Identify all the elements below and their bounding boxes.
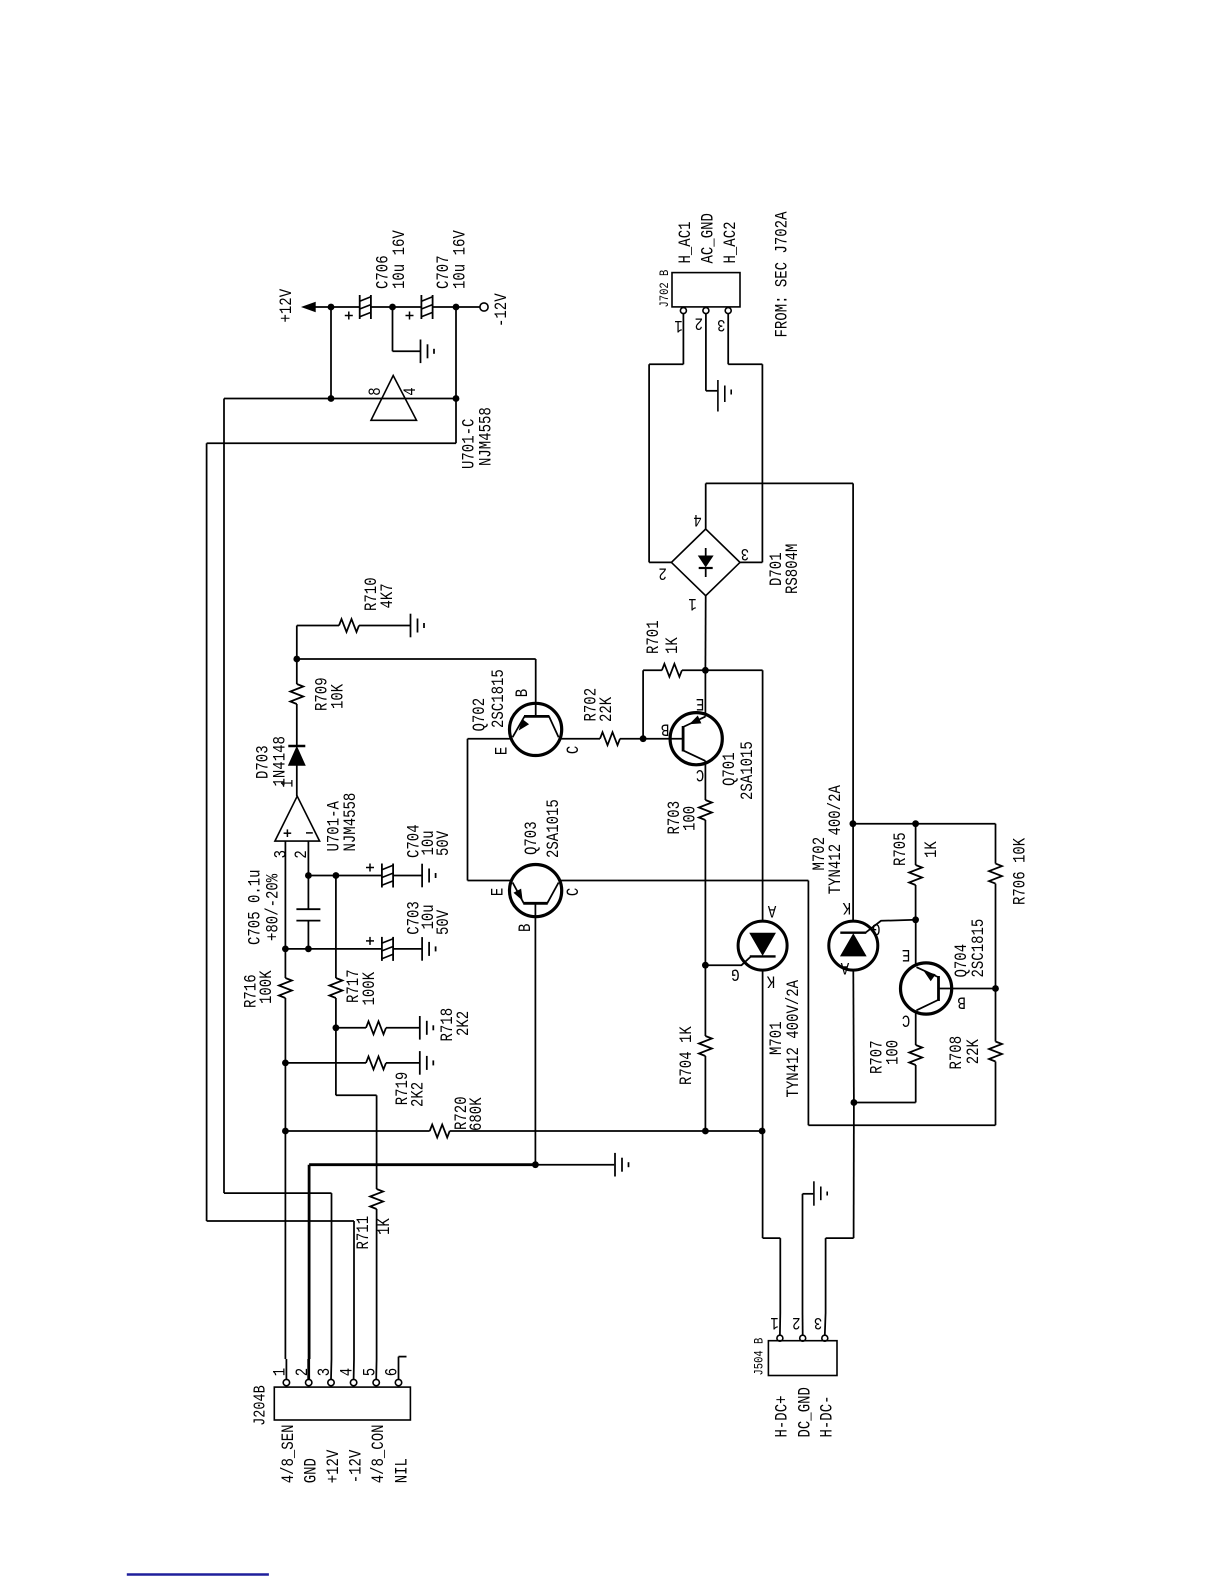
- node R717/R718: [333, 1024, 340, 1031]
- pin 3 circle: [725, 308, 731, 314]
- svg-text:4/8_SEN: 4/8_SEN: [279, 1425, 299, 1484]
- SCR M702: [852, 824, 854, 921]
- svg-text:+12V: +12V: [324, 1449, 344, 1483]
- resistor R703: [699, 800, 712, 820]
- svg-text:E: E: [902, 944, 910, 964]
- wire pin2 (-) input: [307, 841, 309, 909]
- footer line: [127, 1573, 269, 1575]
- svg-text:A: A: [840, 958, 849, 978]
- svg-text:1: 1: [674, 315, 682, 335]
- node pin2/C704/R717: [305, 872, 312, 879]
- wire R717 bottom jog to R711: [335, 1028, 337, 1096]
- pin 4 circle: [350, 1379, 356, 1385]
- node R705 top: [912, 820, 919, 827]
- wire J702 pin1: [682, 314, 684, 365]
- wire +12V to op-amp pin8 rail: [330, 307, 332, 399]
- wire +12V to J204B pin3: [224, 1192, 332, 1194]
- GND thick wire: [308, 1165, 311, 1359]
- resistor R705: [915, 824, 917, 865]
- node R716/R720 bus: [282, 1128, 289, 1135]
- wire Q701 emitter up: [704, 670, 706, 716]
- wire to C704: [308, 875, 382, 877]
- svg-text:+80/-20%: +80/-20%: [263, 873, 283, 941]
- resistor R717: [335, 876, 337, 979]
- wire bridge pin1 down: [704, 596, 706, 671]
- svg-text:+12V: +12V: [277, 288, 297, 322]
- transistor Q702: [509, 703, 561, 755]
- ground (C703): [421, 937, 423, 961]
- pin stub 4: [353, 1359, 355, 1379]
- M701 cathode wire: [762, 970, 764, 1131]
- node bus/R704: [702, 1128, 709, 1135]
- svg-text:C: C: [564, 888, 584, 896]
- wire -12V long vertical: [206, 443, 208, 1221]
- pin stub 1: [779, 1313, 781, 1335]
- wire Q702 collector to R702: [559, 738, 600, 740]
- node R706/Q704 base: [992, 985, 999, 992]
- wire -12V vertical: [455, 307, 457, 443]
- svg-text:-12V: -12V: [492, 293, 512, 327]
- wire to R708 bottom: [808, 1124, 995, 1126]
- svg-text:E: E: [696, 693, 704, 713]
- resistor R718: [336, 1027, 366, 1029]
- node M702 A / R707: [851, 1099, 858, 1106]
- svg-text:2SC1815: 2SC1815: [489, 669, 509, 728]
- wire pin1 sense line: [284, 1063, 286, 1131]
- svg-text:4K7: 4K7: [378, 583, 398, 608]
- wire C703 row: [285, 948, 382, 950]
- wire Q703 collector: [559, 880, 809, 882]
- node C705 bottom: [305, 946, 312, 953]
- wire M701 K to J504 pin1: [762, 1131, 764, 1238]
- power arrow +12V: [303, 303, 316, 312]
- svg-text:B: B: [516, 924, 536, 932]
- svg-text:R704 1K: R704 1K: [677, 1026, 697, 1085]
- svg-text:2SC1815: 2SC1815: [969, 919, 989, 978]
- wire pin3 (+) input: [284, 841, 286, 949]
- svg-text:100K: 100K: [360, 971, 380, 1005]
- M702 gate lead: [866, 920, 916, 933]
- svg-text:G: G: [731, 964, 739, 984]
- resistor R702: [600, 732, 620, 745]
- wire Q703 base down to GND: [534, 903, 536, 1164]
- capacitor C706: [359, 295, 361, 319]
- svg-text:RS804M: RS804M: [783, 544, 803, 594]
- svg-text:6: 6: [382, 1368, 402, 1376]
- svg-text:2: 2: [792, 1312, 800, 1332]
- wire Q704 base: [939, 988, 996, 990]
- wire Q704 collector down: [915, 1010, 917, 1045]
- transistor Q704: [901, 963, 952, 1014]
- pin stub 2: [802, 1313, 804, 1335]
- pin stub 3: [824, 1313, 827, 1335]
- svg-text:100: 100: [680, 806, 700, 831]
- node R717 top: [333, 872, 340, 879]
- capacitor C704: [381, 864, 383, 888]
- SCR M701: [762, 670, 764, 921]
- svg-text:G: G: [872, 919, 880, 939]
- wire -12V to long rail: [207, 442, 456, 444]
- svg-text:H-DC+: H-DC+: [772, 1396, 792, 1438]
- svg-text:R701: R701: [644, 620, 664, 654]
- op-amp U701-A: [275, 796, 320, 841]
- ground (R719): [419, 1051, 421, 1075]
- ground (DC_GND at J504): [802, 1194, 804, 1313]
- pin stub 2: [307, 1359, 310, 1379]
- wire GND to ground symbol: [535, 1164, 614, 1166]
- svg-text:1: 1: [278, 779, 298, 787]
- node GND/Q703 base: [532, 1161, 539, 1168]
- resistor R708: [995, 989, 997, 1042]
- connector J204B: [274, 1387, 410, 1420]
- op-amp U701-C power section: [371, 376, 417, 421]
- resistor R710: [297, 625, 339, 627]
- wire +12V rail: [315, 306, 360, 308]
- wire Q702 emitter: [468, 738, 513, 740]
- node M701 gate / R703 / R704: [702, 962, 709, 969]
- resistor R716: [284, 949, 286, 978]
- wire R701 branch: [642, 670, 644, 738]
- capacitor C703: [381, 937, 383, 961]
- bridge rectifier D701: [671, 529, 740, 596]
- svg-text:H_AC1: H_AC1: [676, 222, 696, 264]
- wire Q702/Q703 emitter link: [467, 739, 469, 881]
- capacitor C707: [420, 295, 422, 319]
- connector J504 B: [768, 1341, 837, 1376]
- wire J702 pin2 to ground: [705, 314, 707, 391]
- svg-text:B: B: [513, 689, 533, 697]
- M702 anode wire: [852, 970, 855, 1102]
- wire to R705/R706: [853, 823, 996, 825]
- svg-text:AC_GND: AC_GND: [698, 213, 718, 263]
- wire pin8 rail: [224, 398, 456, 400]
- svg-text:1K: 1K: [663, 637, 683, 654]
- svg-text:E: E: [488, 888, 508, 896]
- pin 5 circle: [373, 1379, 379, 1385]
- node M702 K: [850, 820, 857, 827]
- svg-text:TYN412 400/2A: TYN412 400/2A: [826, 785, 846, 895]
- diode D703: [288, 745, 305, 748]
- svg-text:C: C: [696, 765, 704, 785]
- pin 3 circle: [822, 1335, 828, 1341]
- ground (R718): [419, 1016, 421, 1040]
- resistor R701: [643, 669, 662, 671]
- resistor R720: [285, 1130, 429, 1132]
- svg-text:Q701: Q701: [720, 752, 740, 786]
- svg-text:FROM: SEC J702A: FROM: SEC J702A: [772, 211, 792, 338]
- pin 1 circle: [680, 308, 686, 314]
- ground (C706/C707 midpoint): [392, 307, 394, 351]
- pin 2 circle: [703, 308, 709, 314]
- svg-text:22K: 22K: [964, 1039, 984, 1065]
- resistor R706: [995, 824, 997, 864]
- svg-text:NJM4558: NJM4558: [476, 407, 496, 466]
- pin 3 circle: [328, 1379, 334, 1385]
- svg-text:Q702: Q702: [470, 698, 490, 732]
- wire Q701 collector down: [704, 761, 706, 800]
- svg-text:K: K: [766, 971, 775, 991]
- resistor R704: [704, 965, 706, 1036]
- wire Q703-C down: [807, 881, 809, 1126]
- transistor Q701: [670, 713, 722, 765]
- svg-text:2K2: 2K2: [408, 1082, 428, 1107]
- svg-text:J204B: J204B: [250, 1385, 270, 1425]
- wire -12V to J204B pin4: [207, 1220, 354, 1222]
- svg-text:R705: R705: [891, 832, 911, 866]
- svg-text:J702 B: J702 B: [657, 270, 672, 308]
- wire: [371, 306, 421, 308]
- ground (R710): [410, 614, 412, 638]
- svg-text:NIL: NIL: [392, 1458, 412, 1483]
- node bus end / M701 K / J504: [759, 1128, 766, 1135]
- pin 6 stub (NIL): [398, 1357, 400, 1380]
- svg-text:3: 3: [814, 1312, 822, 1332]
- pin 2 circle: [800, 1335, 806, 1341]
- node D703/R709/R710/Q702 base: [293, 656, 300, 663]
- resistor R719: [285, 1062, 366, 1064]
- pin stub 1: [285, 1359, 287, 1379]
- svg-text:2: 2: [695, 313, 703, 333]
- svg-text:2SA1015: 2SA1015: [544, 799, 564, 858]
- svg-text:100: 100: [883, 1040, 903, 1065]
- svg-text:GND: GND: [301, 1458, 321, 1483]
- capacitor C705: [296, 908, 320, 910]
- svg-text:4: 4: [693, 509, 701, 529]
- svg-text:3: 3: [741, 544, 749, 564]
- wire Q704 emitter up: [915, 920, 917, 967]
- svg-text:1: 1: [770, 1312, 778, 1332]
- pin 2 circle: [306, 1379, 312, 1385]
- terminal -12V: [480, 303, 488, 311]
- transistor Q703: [509, 865, 561, 917]
- svg-text:C: C: [902, 1010, 910, 1030]
- pin stub 3: [330, 1359, 333, 1379]
- pin 1 circle: [283, 1379, 289, 1385]
- svg-text:A: A: [767, 900, 776, 920]
- pin 1 circle: [777, 1335, 783, 1341]
- svg-text:3: 3: [271, 850, 291, 858]
- svg-text:8: 8: [366, 387, 386, 395]
- wire M702 to J504 pin3: [853, 1103, 855, 1239]
- wire Q701 base: [643, 738, 683, 740]
- svg-text:10u 16V: 10u 16V: [450, 230, 470, 289]
- wire bridge pin4 to top rail: [705, 483, 707, 529]
- wire right rail down: [852, 483, 854, 823]
- wire +12V long vertical: [223, 399, 225, 1194]
- svg-text:C: C: [564, 746, 584, 754]
- wire R710 to node: [296, 626, 298, 660]
- resistor R709: [296, 659, 298, 684]
- svg-text:H_AC2: H_AC2: [721, 222, 741, 264]
- svg-text:2SA1015: 2SA1015: [738, 741, 758, 800]
- svg-text:680K: 680K: [467, 1097, 487, 1131]
- wire: [433, 306, 480, 308]
- svg-text:3: 3: [717, 315, 725, 335]
- pin stub 5: [375, 1359, 377, 1379]
- svg-text:10K: 10K: [328, 683, 348, 709]
- svg-text:50V: 50V: [434, 909, 454, 935]
- svg-text:1K: 1K: [375, 1218, 395, 1235]
- ground (AC_GND): [717, 380, 719, 412]
- svg-text:22K: 22K: [597, 696, 617, 722]
- svg-text:TYN412 400V/2A: TYN412 400V/2A: [784, 979, 804, 1097]
- wire R707 to M702 A node: [854, 1102, 916, 1104]
- M701 gate lead: [705, 957, 750, 965]
- svg-text:R706 10K: R706 10K: [1010, 837, 1030, 905]
- wire J702 pin3: [727, 314, 729, 365]
- svg-text:-12V: -12V: [346, 1449, 366, 1483]
- svg-text:10u 16V: 10u 16V: [390, 230, 410, 289]
- resistor R711: [376, 1095, 378, 1189]
- svg-text:Q703: Q703: [522, 821, 542, 855]
- svg-text:NJM4558: NJM4558: [341, 793, 361, 852]
- ground (GND net): [614, 1153, 616, 1177]
- svg-text:4: 4: [401, 387, 421, 395]
- svg-text:B: B: [661, 719, 669, 739]
- svg-text:50V: 50V: [434, 830, 454, 856]
- node bridge/R701/Q701 emitter/M701 branch: [702, 667, 709, 674]
- svg-text:E: E: [492, 747, 512, 755]
- node pin3/C703 row: [282, 946, 289, 953]
- node +12V/C706/C707 junction: [389, 304, 396, 311]
- svg-text:B: B: [957, 992, 965, 1012]
- svg-text:R711: R711: [354, 1216, 374, 1250]
- svg-text:1K: 1K: [922, 841, 942, 858]
- wire Q703 emitter: [468, 880, 513, 882]
- svg-text:J504 B: J504 B: [752, 1338, 767, 1376]
- connector J702 B: [672, 273, 740, 307]
- svg-text:K: K: [842, 898, 851, 918]
- svg-text:4/8_CON: 4/8_CON: [369, 1425, 389, 1484]
- svg-text:H-DC-: H-DC-: [817, 1396, 837, 1438]
- svg-text:2: 2: [658, 563, 666, 583]
- ground (C704): [421, 864, 423, 888]
- node R705/M702 gate/Q704 E: [912, 916, 919, 923]
- svg-text:DC_GND: DC_GND: [795, 1387, 815, 1437]
- pin 6 circle: [395, 1379, 401, 1385]
- svg-text:1: 1: [688, 594, 696, 614]
- wire node to Q702 base: [297, 658, 536, 660]
- resistor R707: [909, 1045, 922, 1065]
- svg-text:2K2: 2K2: [454, 1011, 474, 1036]
- svg-text:100K: 100K: [257, 970, 277, 1004]
- node R716/R719: [282, 1060, 289, 1067]
- node R702/Q701 base/R701: [640, 735, 647, 742]
- svg-text:C705 0.1u: C705 0.1u: [245, 869, 265, 945]
